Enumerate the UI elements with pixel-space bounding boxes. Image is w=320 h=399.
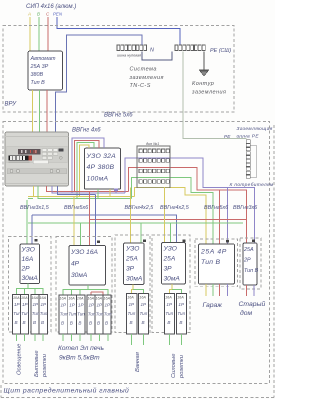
wire riser B: [131, 177, 213, 244]
svg-text:дом: дом: [240, 309, 253, 317]
svg-text:В: В: [78, 321, 81, 326]
breaker QF1 Автомат 25А 3Р box: [28, 51, 63, 90]
wire N wrap from bundle: [31, 215, 33, 244]
junction group5: [226, 240, 229, 243]
svg-text:2Р: 2Р: [21, 266, 31, 273]
wire phase B input: [38, 17, 40, 51]
svg-text:16А: 16А: [165, 296, 172, 300]
svg-text:УЗО 16А: УЗО 16А: [70, 249, 98, 256]
svg-text:Тип: Тип: [60, 312, 68, 317]
svg-text:10А: 10А: [13, 296, 20, 300]
svg-text:В: В: [70, 321, 73, 326]
svg-text:1Р: 1Р: [33, 302, 40, 307]
PE distribution bar (Заземляющая шина PE): [224, 126, 274, 188]
svg-text:1Р: 1Р: [129, 302, 136, 307]
svg-text:В: В: [142, 320, 145, 325]
main panel dashed box: [3, 122, 270, 384]
wire PE feed to panel PE bar: [183, 52, 246, 139]
wire RCD out green: [97, 189, 99, 198]
electricity meter (счётчик): [5, 132, 69, 186]
svg-text:1Р: 1Р: [22, 302, 29, 307]
label Контур заземления: [191, 81, 226, 96]
wire meter out C red: [46, 186, 128, 192]
wire riser C: [128, 167, 246, 243]
RCD group3 УЗО 25А 3Р 30мА: [124, 243, 145, 285]
svg-text:16А: 16А: [77, 297, 84, 301]
svg-text:16А: 16А: [88, 297, 95, 301]
svg-text:30мА: 30мА: [22, 275, 39, 282]
breaker box group4 A: [165, 294, 175, 335]
svg-text:16А: 16А: [68, 297, 75, 301]
wire outgoing group3: [132, 334, 144, 345]
wire phase A breaker to meter: [32, 90, 34, 132]
breaker box group1 B: [31, 295, 48, 335]
svg-text:PE: PE: [224, 134, 231, 140]
svg-text:25А: 25А: [163, 256, 176, 263]
RCD group2 УЗО 16А 4Р 30мА: [69, 246, 106, 286]
wire green wrap left: [28, 197, 33, 199]
svg-text:ВВГнг5x6: ВВГнг5x6: [204, 205, 228, 211]
svg-text:К потребителям: К потребителям: [230, 182, 274, 188]
svg-text:А: А: [27, 12, 31, 17]
svg-text:3Р: 3Р: [126, 266, 135, 273]
wire phase B breaker to meter: [39, 90, 41, 132]
wire N from bus to meter: [56, 35, 142, 132]
svg-text:16А: 16А: [127, 296, 134, 300]
wire RCD output drops: [98, 189, 116, 198]
svg-text:2Р: 2Р: [243, 258, 251, 264]
enclosure VRU dashed box: [3, 26, 234, 113]
svg-text:Котел Эл печь: Котел Эл печь: [58, 345, 105, 352]
svg-text:С: С: [46, 12, 50, 17]
group6 dashed box (Старый дом): [240, 238, 261, 289]
breaker box group4 B: [177, 294, 187, 335]
wire phase C input: [47, 17, 49, 51]
wire PE distribution line: [28, 222, 243, 224]
svg-text:1Р: 1Р: [97, 303, 104, 308]
svg-text:ВВГнг4x2,5: ВВГнг4x2,5: [125, 205, 155, 211]
outer frame dashed (right/bottom/left): [1, 125, 274, 397]
svg-text:25А 3Р: 25А 3Р: [30, 64, 49, 70]
svg-text:Тип В: Тип В: [201, 259, 221, 266]
svg-text:9кВт 5,5кВт: 9кВт 5,5кВт: [59, 355, 100, 362]
wire N branch to garage: [227, 188, 229, 245]
svg-text:16А: 16А: [60, 297, 67, 301]
svg-text:16А: 16А: [40, 296, 47, 300]
svg-text:Заземляющая: Заземляющая: [237, 126, 273, 132]
svg-text:Бытовые: Бытовые: [34, 350, 40, 377]
svg-text:Система: Система: [130, 67, 157, 73]
RCD U1 УЗО 32А 4Р 100мА box: [84, 148, 120, 189]
svg-text:Тип: Тип: [21, 311, 29, 316]
wire A meter->RCD (yellow): [80, 145, 90, 196]
junction group6: [252, 240, 255, 243]
svg-text:ВВГнг5x6: ВВГнг5x6: [64, 205, 88, 211]
svg-text:заземления: заземления: [129, 75, 164, 81]
svg-text:дин №1: дин №1: [146, 142, 159, 146]
svg-text:Тип: Тип: [13, 311, 21, 316]
svg-text:В: В: [105, 321, 108, 326]
svg-text:Щит распределительный главный: Щит распределительный главный: [4, 387, 130, 395]
svg-text:Тип: Тип: [140, 311, 148, 316]
svg-text:СИП 4x16 (алюм.): СИП 4x16 (алюм.): [26, 4, 76, 10]
breaker group5 25А 4Р Тип В: [199, 244, 235, 284]
svg-text:4Р: 4Р: [71, 261, 80, 268]
svg-text:ВВГнг3x6: ВВГнг3x6: [233, 205, 257, 211]
svg-text:30мА: 30мА: [71, 272, 88, 279]
svg-text:Тип: Тип: [77, 312, 85, 317]
wire meter output drops: [28, 186, 135, 198]
svg-text:В: В: [61, 321, 64, 326]
wire N meter->RCD (violet outer): [72, 138, 104, 193]
wire RCD out N: [115, 189, 117, 193]
wire PEN input to PE bus: [57, 17, 180, 45]
svg-text:25А 4Р: 25А 4Р: [200, 249, 227, 256]
svg-text:Тип: Тип: [88, 312, 96, 317]
wire phase A input: [29, 17, 31, 51]
group3 dashed box: [115, 235, 150, 333]
svg-text:16А: 16А: [104, 297, 111, 301]
wire group1 RCD to breakers: [17, 284, 44, 295]
svg-text:1Р: 1Р: [105, 303, 112, 308]
svg-text:ВРУ: ВРУ: [5, 102, 18, 108]
junction RCD N terminal: [114, 188, 118, 191]
wire outgoing group5: [206, 284, 228, 296]
wire outgoing group1: [17, 334, 44, 341]
svg-text:Ванная: Ванная: [135, 352, 141, 372]
svg-text:Гараж: Гараж: [203, 302, 223, 309]
wire feeds group4: [165, 188, 171, 243]
wire outgoing group2: [63, 334, 108, 341]
junction group1: [35, 239, 38, 242]
svg-text:шина PE: шина PE: [237, 134, 260, 140]
svg-text:10А: 10А: [21, 296, 28, 300]
wire RCD out yellow: [109, 189, 111, 196]
wire outgoing group6: [246, 285, 254, 296]
svg-text:ВВГнг3x1,5: ВВГнг3x1,5: [20, 205, 50, 211]
svg-text:25А: 25А: [125, 256, 138, 263]
svg-text:30мА: 30мА: [164, 276, 181, 283]
svg-text:В: В: [89, 321, 92, 326]
svg-text:УЗО: УЗО: [125, 246, 139, 253]
svg-text:РЕ (СШ): РЕ (СШ): [210, 48, 231, 54]
svg-text:ВВГнг 4x6: ВВГнг 4x6: [72, 128, 101, 134]
svg-text:1Р: 1Р: [41, 302, 48, 307]
wire N distribution line: [32, 215, 177, 243]
svg-text:1Р: 1Р: [61, 303, 68, 308]
breaker box group2 B: [87, 295, 112, 334]
svg-text:Тип: Тип: [165, 311, 173, 316]
wire PE bar consumers bracket: [250, 145, 256, 178]
svg-text:шина нулевая: шина нулевая: [117, 54, 141, 58]
svg-text:розетки: розетки: [42, 353, 48, 378]
svg-text:розетки: розетки: [179, 354, 185, 379]
svg-text:В: В: [41, 320, 44, 325]
svg-text:Контур: Контур: [192, 81, 214, 87]
breaker box group2 A: [59, 295, 85, 334]
terminal block дин №1: [137, 142, 170, 188]
svg-text:Тип: Тип: [128, 311, 136, 316]
svg-text:Силовые: Силовые: [171, 353, 177, 378]
ground wire from PE bus: [203, 52, 205, 71]
wire yellow stub left: [28, 195, 33, 197]
svg-text:16А: 16А: [177, 296, 184, 300]
svg-text:16А: 16А: [32, 296, 39, 300]
svg-text:Старый: Старый: [239, 300, 266, 308]
svg-text:1Р: 1Р: [69, 303, 76, 308]
svg-text:1Р: 1Р: [141, 302, 148, 307]
svg-text:Автомат: Автомат: [30, 56, 56, 62]
svg-text:PEN: PEN: [53, 12, 63, 17]
group4 dashed box: [152, 235, 190, 333]
breaker group6 25А 2Р Тип В: [243, 243, 257, 285]
wire feeds group2: [74, 192, 96, 246]
breaker box group1 A: [13, 295, 30, 335]
svg-text:В: В: [37, 12, 40, 17]
group2 dashed box: [56, 237, 112, 333]
svg-text:1Р: 1Р: [166, 302, 173, 307]
wire group3 RCD to breakers: [132, 285, 144, 294]
svg-text:16А: 16А: [22, 256, 34, 263]
wire phase C breaker to meter: [46, 90, 48, 132]
wire meter out A yellow: [33, 186, 134, 196]
wire N-PE jumper: [142, 52, 172, 61]
junction group2: [97, 241, 100, 244]
wire meter out N violet: [52, 186, 125, 193]
svg-text:В: В: [33, 320, 36, 325]
wire meter out B green: [38, 186, 131, 198]
wire C meter->RCD (red): [75, 140, 99, 191]
svg-text:1Р: 1Р: [89, 303, 96, 308]
svg-text:В: В: [179, 320, 182, 325]
wire outgoing group4: [170, 334, 182, 345]
svg-text:N: N: [150, 48, 154, 54]
svg-text:380В: 380В: [31, 72, 44, 78]
N bus bar: [117, 45, 147, 51]
RCD group4 УЗО 25А 3Р 30мА: [162, 243, 186, 284]
svg-text:16А: 16А: [139, 296, 146, 300]
breaker box group3 B: [139, 294, 149, 335]
wire riser A: [135, 187, 206, 244]
ground symbol: [199, 70, 209, 76]
wire C distribution line: [89, 219, 246, 221]
wire riser N: [125, 158, 255, 243]
junction group4: [183, 240, 186, 243]
junction group3: [143, 240, 146, 243]
wire PE wrap from bundle: [26, 200, 28, 244]
svg-text:Тип: Тип: [32, 311, 40, 316]
svg-text:Освещение: Освещение: [17, 343, 23, 375]
wire B meter->RCD (green): [77, 143, 94, 199]
svg-text:16А: 16А: [96, 297, 103, 301]
svg-text:4Р 380В: 4Р 380В: [87, 164, 115, 171]
svg-text:заземления: заземления: [191, 90, 226, 96]
svg-text:В: В: [23, 320, 26, 325]
wire feeds group3: [131, 188, 142, 243]
wire group2 RCD to breakers: [63, 285, 108, 295]
svg-text:1Р: 1Р: [14, 302, 21, 307]
svg-text:TN-C-S: TN-C-S: [130, 83, 151, 89]
svg-text:УЗО: УЗО: [163, 246, 177, 253]
svg-text:25А: 25А: [243, 247, 254, 253]
svg-text:Тип: Тип: [96, 312, 104, 317]
svg-text:Тип В: Тип В: [244, 268, 259, 274]
svg-text:3Р: 3Р: [164, 266, 173, 273]
svg-text:УЗО 32А: УЗО 32А: [86, 153, 117, 160]
svg-text:В: В: [130, 320, 133, 325]
wire meter out blue: [58, 186, 96, 195]
label Система заземления TN-C-S: [129, 67, 164, 90]
svg-text:1Р: 1Р: [78, 303, 85, 308]
group5 dashed box (Гараж): [195, 239, 238, 287]
RCD group1 УЗО 16А 2Р 30мА: [20, 244, 40, 284]
svg-text:ВВГнг 5x6: ВВГнг 5x6: [104, 113, 133, 119]
svg-text:УЗО: УЗО: [21, 247, 35, 254]
svg-text:ВВГнг4x2,5: ВВГнг4x2,5: [160, 205, 190, 211]
wire group4 RCD to breakers: [170, 284, 182, 294]
wire risers to distribution buses: [125, 158, 255, 244]
svg-text:Тип: Тип: [177, 311, 185, 316]
svg-text:Тип: Тип: [40, 311, 48, 316]
svg-text:В: В: [15, 320, 18, 325]
svg-text:100мА: 100мА: [87, 175, 109, 182]
breaker box group3 A: [127, 294, 137, 335]
svg-text:Тип В: Тип В: [31, 80, 46, 86]
PE bus bar (СШ): [175, 45, 205, 51]
group1 dashed box: [9, 237, 52, 333]
svg-text:1Р: 1Р: [178, 302, 185, 307]
svg-text:В: В: [167, 320, 170, 325]
svg-text:Тип: Тип: [68, 312, 76, 317]
wire C branch to garage: [219, 190, 221, 244]
svg-text:Тип: Тип: [104, 312, 112, 317]
wire meter to RCD input (nested corner bundle): [72, 138, 104, 199]
svg-text:В: В: [97, 321, 100, 326]
svg-text:30мА: 30мА: [126, 276, 143, 283]
